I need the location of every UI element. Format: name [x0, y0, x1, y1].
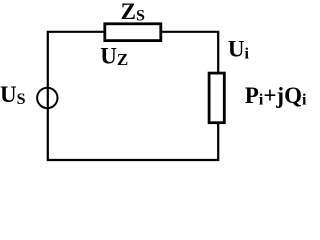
svg-text:US: US	[0, 82, 26, 108]
svg-text:UZ: UZ	[100, 44, 128, 70]
svg-text:Pi+jQi: Pi+jQi	[245, 83, 307, 109]
svg-text:ZS: ZS	[121, 0, 145, 24]
svg-text:Ui: Ui	[228, 37, 250, 63]
